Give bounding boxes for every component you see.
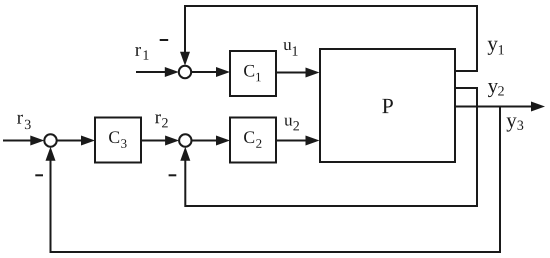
summing junction S1 (179, 66, 191, 78)
wire r1 input (136, 71, 167, 73)
wire S1 to C1 (191, 71, 218, 73)
arrowhead into C1 (216, 67, 230, 77)
wire S3 to C2 (192, 140, 219, 142)
label P (382, 99, 393, 113)
label y3 (507, 117, 524, 131)
block C3 (95, 118, 141, 163)
wire y3 output (455, 106, 532, 108)
wire r3 input (3, 140, 32, 142)
wire C2 to P (u2) (276, 140, 307, 142)
summing junction S2 (44, 134, 56, 146)
minus sign at S1 (160, 39, 169, 41)
label C3 (109, 131, 126, 148)
wire S2 to C3 (57, 140, 83, 142)
arrowhead u1 into P (306, 68, 320, 78)
arrowhead r2 into S3 (165, 136, 179, 146)
arrowhead y3 output (531, 102, 545, 112)
arrowhead r1 into S1 (165, 67, 179, 77)
arrowhead feedback down into S1 (180, 52, 190, 66)
minus sign at S2 (35, 174, 43, 176)
wire y2 stub and feedback loop (185, 88, 477, 206)
arrowhead y2 feedback into S3 (180, 147, 190, 161)
block P (320, 49, 455, 162)
label y1 (488, 41, 504, 55)
block C2 (230, 118, 276, 163)
arrowhead into C2 (216, 136, 230, 146)
arrowhead u2 into P (306, 136, 320, 146)
label C1 (244, 65, 261, 81)
wire y3 feedback loop (51, 107, 501, 253)
block C1 (230, 51, 276, 96)
label u1 (283, 42, 297, 56)
wire C3 to S3 (r2) (141, 140, 167, 142)
arrowhead y3 feedback into S2 (46, 147, 56, 161)
arrowhead into C3 (81, 136, 95, 146)
label r1 (135, 47, 148, 60)
label u2 (284, 118, 299, 131)
arrowhead r3 into S2 (30, 136, 44, 146)
summing junction S3 (179, 134, 191, 146)
label y2 (488, 83, 504, 97)
label r2 (155, 114, 168, 127)
label C2 (244, 131, 261, 147)
minus sign at S3 (169, 174, 177, 176)
wire top feedback loop y1 (185, 6, 477, 71)
label r3 (17, 115, 31, 129)
wire C1 to P (u1) (276, 72, 307, 74)
